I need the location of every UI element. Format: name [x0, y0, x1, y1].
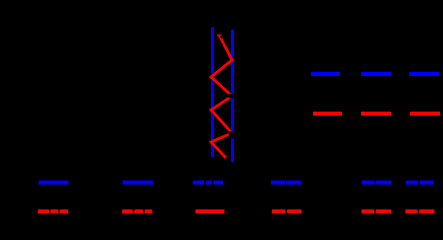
upper level U1 blue — [311, 72, 340, 76]
ground level G5 blue dashed — [362, 181, 375, 185]
ladder left vertical line — [211, 27, 214, 158]
ground level G4 red dashed — [272, 209, 286, 213]
upper level U3 blue — [409, 72, 439, 76]
ground level G1 red dashed — [38, 209, 49, 213]
ground level G6 red dashed — [405, 209, 417, 213]
upper level U1 red — [313, 112, 342, 116]
dash gap at vertex R2 — [228, 94, 235, 98]
upper level U2 blue — [361, 72, 391, 76]
ground level G4 blue dashed — [271, 181, 285, 185]
ground level G2 red dashed — [122, 209, 133, 213]
ground level G6 blue dashed — [406, 181, 419, 185]
dash gap at vertex R3 — [229, 131, 235, 139]
cascade zigzag — [211, 39, 232, 159]
ground level G3 red solid — [196, 209, 225, 213]
upper level U2 red — [361, 112, 391, 116]
cascade arrowhead — [218, 35, 221, 38]
ground level G1 blue solid — [39, 181, 69, 185]
upper level U3 red — [410, 112, 440, 116]
ladder right vertical line — [231, 30, 234, 162]
ground level G5 red dashed — [362, 209, 375, 213]
ground level G2 blue solid — [123, 181, 154, 185]
ground level G3 blue dashed — [193, 181, 204, 185]
